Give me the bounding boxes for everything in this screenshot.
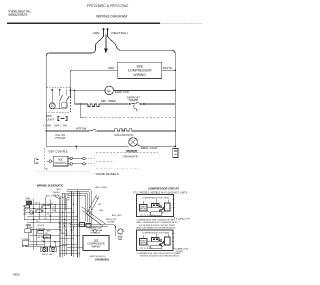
harness diagonal bundle [82,207,106,226]
svg-text:BK: BK [96,198,99,200]
svg-text:RY OL S M C: RY OL S M C [141,248,154,250]
light switch contact [60,95,63,100]
door switch bracket [58,117,67,121]
lamp branch wire [51,90,53,103]
harness bottom labels [42,254,53,256]
svg-text:HTR SW: HTR SW [76,127,87,131]
box1 pin cluster [152,204,165,212]
svg-text:WH-BK: WH-BK [61,233,69,235]
svg-text:PK: PK [59,230,62,232]
evap fan motor [105,86,114,95]
box1 overload [151,212,162,215]
svg-text:FRT21NRC & FRT21TNC: FRT21NRC & FRT21TNC [87,4,129,8]
svg-text:AND COMPRESSOR KIT 5304464097: AND COMPRESSOR KIT 5304464097 ALSO [137,221,179,224]
compressor note lines between boxes [137,219,179,229]
harness lower boxes [22,229,50,245]
harness bottom band [70,225,116,237]
box2 pin cluster [152,238,165,246]
svg-text:RELAY: RELAY [140,208,147,211]
svg-text:LT SW: LT SW [44,124,52,127]
svg-text:* SOME MODELS: * SOME MODELS [94,172,119,176]
box2 overload [151,245,162,248]
box2 start device [140,239,148,246]
junction dot defrost right [143,103,145,105]
svg-text:WIRING: WIRING [92,246,101,249]
wire: thermostat to right bus [141,103,175,105]
svg-text:DEVICE: DEVICE [140,243,148,245]
svg-text:*DEF. CONTROL: *DEF. CONTROL [48,149,69,153]
harness see-note label [106,214,123,224]
box2 pin dots [153,239,164,246]
harness lower mesh [25,222,83,254]
svg-text:BLOCK: BLOCK [37,225,45,227]
publication number text [9,10,32,18]
wire: left line cord lead to left bus [46,37,103,147]
harness adc drop diagonals [86,195,99,217]
svg-text:ADC UNIT: ADC UNIT [112,214,123,217]
svg-text:BK WH: BK WH [22,246,29,248]
wire box bottom bar [52,108,66,110]
harness ground circle 2 [51,248,55,252]
wire: coil to thermostat [99,103,128,105]
svg-text:SW: SW [52,210,55,212]
svg-text:THERM.: THERM. [129,98,140,102]
harness grommet box 2 [50,247,57,251]
right bus connector [173,149,178,158]
svg-text:240389301: 240389301 [95,258,110,262]
svg-text:DR SW: DR SW [38,228,45,230]
adc harness bracket [35,159,39,164]
svg-text:B CAPACITOR: B CAPACITOR [174,248,188,251]
mullion heater row wire left [46,130,88,132]
ground wire arrow [104,35,108,54]
junction right bus light row [174,145,176,147]
harness lamp circle [30,211,33,214]
box1 right edge pin ticks [173,200,175,208]
svg-text:BK WH OR: BK WH OR [38,237,49,239]
harness right connector circle [118,229,123,234]
svg-text:DEVICE 5304475103 (SOME MODELS: DEVICE 5304475103 (SOME MODELS) [140,256,180,258]
box2 run capacitor label [174,248,188,254]
harness junction dots [33,204,65,220]
wire: cold control to compressor bus [70,87,72,98]
box1 run capacitor label [176,217,190,220]
svg-text:GRD: GRD [93,31,101,35]
adc left pin [47,160,54,162]
junction dot switch top [59,89,61,91]
harness line cord block [26,201,32,204]
junction right bus fan row [174,90,176,92]
light/switch dashed enclosure [46,87,70,112]
svg-text:RY OL S M C: RY OL S M C [141,215,154,217]
harness label near diagonals [88,186,107,229]
svg-text:OR: OR [67,200,71,202]
header rule [7,22,160,24]
dotted separator row [36,171,90,173]
svg-text:[ DR ]: [ DR ] [54,124,61,127]
box1 cover [165,203,171,211]
model header text [87,4,129,18]
svg-text:B CAPACITOR: B CAPACITOR [176,217,190,220]
junction dot fan row [70,89,72,91]
svg-text:WH: WH [100,210,104,212]
svg-text:CONTROL: CONTROL [54,162,67,165]
junction dot light row [75,145,77,147]
harness run cap bold label [118,236,123,241]
evap fan row wire [71,89,105,91]
junction right bus compressor row [174,69,176,71]
svg-text:DEF TIMER: DEF TIMER [42,204,54,206]
light switch branch [59,90,61,109]
junction dot defrost step [74,90,76,92]
harness top stubs [55,195,62,200]
harness extra speck labels [23,203,56,223]
harness mid-bundle ticks [60,205,80,244]
harness L wire nest [67,190,92,223]
svg-text:GY: GY [59,227,63,229]
def control tick [75,146,77,149]
cold control contact [66,96,69,101]
svg-text:WH: WH [23,210,27,212]
wire: right line cord lead to right bus [108,37,176,148]
harness left mesh [24,197,78,223]
svg-text:MODELS): MODELS) [91,233,101,235]
svg-text:MULLION HTR.: MULLION HTR. [115,133,134,137]
box2 right edge pin ticks [172,234,174,242]
svg-text:RED: RED [109,66,115,70]
svg-text:GN: GN [23,214,27,216]
box1 pin dots [153,205,164,212]
harness compressor area labels [91,228,103,235]
box1 wires [143,199,168,214]
svg-text:CAP: CAP [118,238,123,241]
svg-text:DRAIN HTR.: DRAIN HTR. [124,154,139,158]
harness bundle dots [59,204,78,243]
junction dot mullion left [45,130,47,132]
defrost timer motor coil [88,104,101,106]
compressor detail box 2 [137,230,174,251]
cold control branch [65,90,67,109]
harness mid smudge labels [38,228,49,242]
svg-text:EF: EF [107,89,111,93]
harness connector row under diagonals [80,223,92,228]
harness bundle speck band [59,224,74,235]
svg-text:0605: 0605 [13,272,20,276]
svg-text:WHITE: WHITE [163,66,172,70]
svg-text:BK: BK [59,224,62,226]
svg-text:OR: OR [98,204,102,206]
wire: compressor to right bus [162,69,176,71]
harness small switch boxes [25,205,51,212]
mullion heater switch [88,129,97,131]
adc right pin lower [68,163,95,165]
box2 wires [143,234,168,248]
wire: heater to right bus [134,130,176,132]
svg-text:WIRING: WIRING [134,73,147,77]
svg-text:ADC CONN: ADC CONN [96,186,108,189]
svg-text:POWER: POWER [22,239,30,241]
refr light row wire left [46,145,129,147]
svg-text:AND RUN CAPACITOR (SOME MODELS: AND RUN CAPACITOR (SOME MODELS) [137,227,176,230]
svg-text:F.T.C. MODELS: MODELS W 4.5 &: F.T.C. MODELS: MODELS W 4.5 & NON E.S. U… [133,192,188,194]
wire: refr light to right bus [137,145,175,147]
adc right pin upper [68,157,95,159]
adaptive defrost control box [53,156,68,166]
harness vertical bundle center [60,191,80,258]
box1 capacitor arrow [174,217,176,219]
svg-text:HTR SW: HTR SW [56,137,67,140]
svg-text:(SOME): (SOME) [107,222,115,224]
svg-text:(NEUTRAL): (NEUTRAL) [111,31,128,35]
harness junction dots lower [33,229,56,247]
junction dot drain step [80,103,82,105]
harness label stack lower-left [26,225,33,229]
harness mid labels [25,204,55,232]
adc feed dashed drop [44,148,47,169]
defrost thermostat contacts [128,103,141,112]
svg-text:OR: OR [45,233,49,235]
svg-text:BR: BR [64,227,67,229]
svg-text:COMPRESSOR CIRCUIT: COMPRESSOR CIRCUIT [148,187,179,191]
svg-text:OR: OR [68,224,72,226]
svg-text:YL: YL [69,227,72,229]
drain heater lower dashed [96,160,114,162]
svg-text:WH YL GN: WH YL GN [42,254,53,256]
harness grommet box 1 [41,247,48,251]
harness small circle lower right [93,229,97,233]
svg-text:RD: RD [70,230,74,232]
defrost row step wire [75,90,88,104]
box2 capacitor arrow [173,247,174,249]
drain heater step wire [81,104,85,118]
drain heater dashed wire [85,117,175,119]
compressor box [118,62,162,78]
refr light lamp [129,138,138,147]
svg-text:LIGHT: LIGHT [47,117,55,121]
junction right bus mullion row [174,130,176,132]
svg-text:WIRING SCHEMATIC: WIRING SCHEMATIC [37,184,64,188]
junction dot lamp top [52,89,54,91]
wire: switch to heater [97,130,115,132]
box1 start relay [140,205,148,212]
svg-text:DEF. TIMER: DEF. TIMER [101,99,116,103]
svg-text:COMPRESSOR UNIT: 53044640 (SOM: COMPRESSOR UNIT: 53044640 (SOME) [137,219,175,221]
svg-text:ADC: ADC [57,188,62,191]
harness compressor box [83,236,109,251]
harness top connector bracket [62,193,66,210]
svg-text:E.S. MODELS W ELECTRONIC START: E.S. MODELS W ELECTRONIC START [139,224,176,227]
compressor detail box 1 [137,195,174,217]
compressor note below box2 [137,252,182,258]
wire: compressor feed drop [70,70,117,87]
svg-text:CAP (SOME: CAP (SOME [91,229,103,232]
freezer compartment labels row [44,124,68,127]
svg-text:5995209579: 5995209579 [9,13,28,17]
defrost limiter small box [62,103,67,108]
svg-text:SW: SW [35,203,38,205]
svg-text:SW: SW [63,124,68,127]
svg-text:COMPRESSOR UNIT 5304475102 W S: COMPRESSOR UNIT 5304475102 W START [137,252,182,255]
box2 cover [165,237,171,245]
harness top wire labels [53,188,70,202]
mullion heater element [115,129,134,131]
freezer light lamp [49,103,55,109]
svg-text:WIRING DIAGRAM: WIRING DIAGRAM [96,15,127,19]
drain heater element [96,150,158,152]
line cord plug prongs [102,28,109,37]
harness ground circle 1 [42,248,46,252]
wire: fan to right bus [114,89,176,91]
